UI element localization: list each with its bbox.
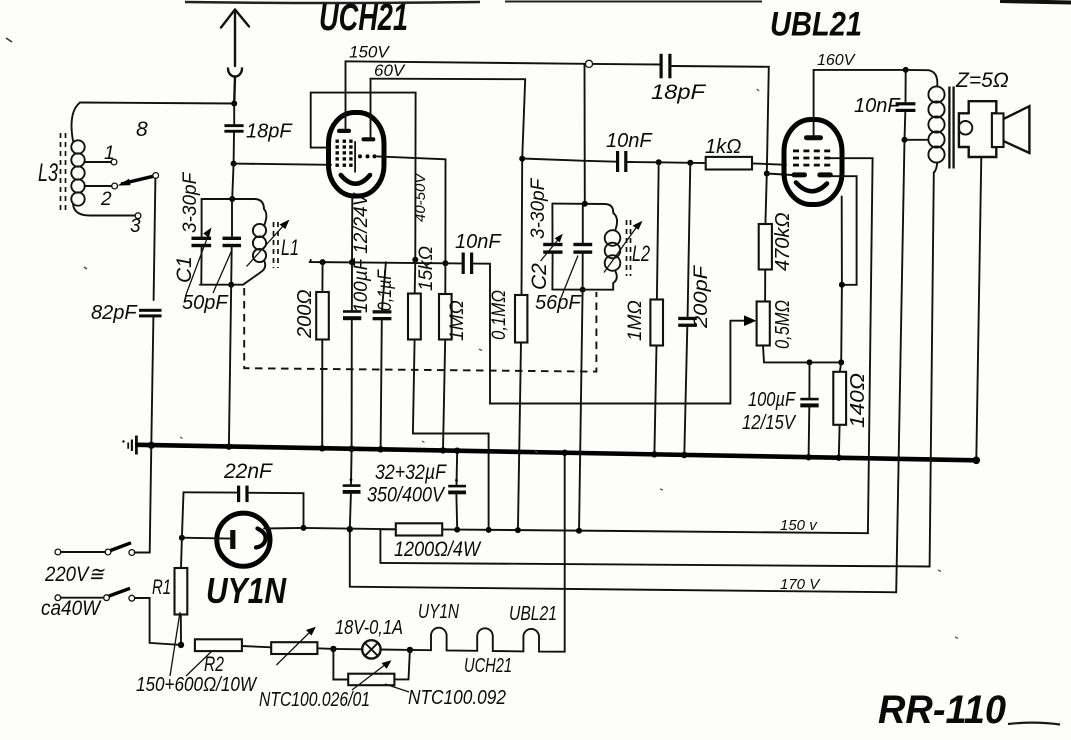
wire 82pF to bus (151, 317, 153, 445)
svg-text:150V: 150V (349, 43, 390, 62)
node grid junction (231, 161, 237, 167)
wire tank C1 bottom (200, 284, 243, 286)
svg-text:150+600Ω/10W: 150+600Ω/10W (136, 674, 258, 696)
wire UY1N cathode lead (182, 537, 230, 540)
L3 tap 3 terminal (135, 213, 141, 219)
svg-text:40-50V: 40-50V (412, 172, 429, 222)
UBL21 grid dashes (793, 150, 830, 167)
speaker horn (1004, 106, 1030, 153)
thermistor NTC 100.092 parallel (333, 649, 410, 690)
L3 tap 1 terminal (111, 159, 117, 165)
resistor 0.1M (515, 295, 527, 532)
svg-text:140Ω: 140Ω (847, 373, 869, 428)
svg-text:2: 2 (100, 189, 112, 210)
potentiometer 0.5M (757, 302, 842, 363)
wire 60V supply (371, 79, 526, 159)
wire hexode anode out (377, 156, 446, 263)
svg-text:UY1N: UY1N (418, 601, 459, 623)
svg-text:RR-110: RR-110 (878, 688, 1006, 732)
svg-text:32+32µF: 32+32µF (375, 461, 447, 484)
resistor R1 (175, 538, 188, 645)
svg-text:1MΩ: 1MΩ (447, 300, 468, 341)
node 200ohm top (320, 259, 326, 265)
resistor 140ohm (833, 362, 846, 457)
capacitor 10nF osc (616, 151, 659, 172)
wire primary bottom to raw rail (930, 173, 934, 567)
dashed coupling box C1-C2 (244, 288, 596, 372)
wire speaker to bus (976, 157, 981, 460)
svg-text:0,1MΩ: 0,1MΩ (489, 290, 510, 340)
node rail 0.1M feed (515, 527, 521, 533)
UCH21 grid dots (336, 140, 353, 167)
node rail 15k feed (486, 527, 492, 533)
svg-text:0,5MΩ: 0,5MΩ (772, 300, 794, 349)
node anode junction (442, 260, 448, 266)
resistor 1k (690, 157, 786, 170)
svg-text:10nF: 10nF (606, 130, 653, 152)
node UY1N cathode junction (179, 535, 185, 541)
wire diode plate stub (767, 174, 792, 176)
mains switch lower pole (55, 588, 181, 645)
svg-text:160V: 160V (817, 52, 856, 69)
L3 core dashes (61, 133, 66, 213)
capacitor 32uF left (343, 449, 361, 529)
L1 arrow (247, 220, 290, 267)
svg-text:R1: R1 (152, 576, 171, 599)
svg-text:UCH21: UCH21 (464, 655, 512, 677)
wire tank C2 bottom (552, 289, 613, 291)
capacitor C1 trimmer 3-30pF (186, 199, 212, 296)
node bus right end (973, 457, 981, 465)
node 200ohm bus (319, 445, 325, 451)
svg-text:150 v: 150 v (780, 517, 818, 534)
svg-text:15kΩ: 15kΩ (416, 246, 437, 291)
node antenna junction (231, 101, 237, 107)
svg-text:18pF: 18pF (246, 121, 293, 143)
wire hexode grid3 bracket (311, 93, 416, 260)
resistor 1M left (439, 263, 452, 450)
node diode feedback junction (764, 171, 770, 177)
coil L2 (605, 213, 621, 290)
resistor 15k (408, 260, 489, 532)
wire tap to primary (905, 139, 929, 141)
coil L1 (243, 209, 266, 285)
wire grid line to 200pF node (659, 161, 691, 164)
UCH21 cathode arc (341, 175, 370, 184)
svg-text:12/15V: 12/15V (742, 412, 796, 434)
L3 tap 1 wire (85, 161, 112, 163)
wire osc anode drop (584, 64, 586, 204)
L3 tap 2 wire (85, 185, 112, 187)
scan artifact RR-110 tail (1008, 723, 1060, 725)
node lamp right junction (407, 647, 413, 653)
transformer core (949, 87, 953, 169)
wire switch down to 82pF (154, 178, 156, 300)
node 1M left bus (440, 447, 446, 453)
resistor 200ohm (316, 262, 329, 448)
svg-text:56pF: 56pF (535, 292, 582, 314)
svg-text:8: 8 (136, 118, 148, 141)
UCH21 pin bar 2 (362, 137, 376, 141)
node cathode junction (349, 259, 355, 265)
node 140ohm bus (836, 455, 842, 461)
switch arm band selector (118, 173, 159, 186)
wire UBL21 cathode down (840, 197, 843, 363)
node rail tank feed (576, 528, 582, 534)
node tank C1 bottom junction (228, 282, 234, 288)
node 1M right bus (651, 451, 657, 457)
node 100uF 12/15V top (807, 359, 813, 365)
wire raw HT rail (380, 563, 929, 567)
resistor 1200ohm 4W (380, 523, 442, 563)
wire 18pF to grid junction (233, 133, 235, 164)
tank C2 top wire (552, 204, 613, 213)
wire 150V rail (442, 529, 868, 533)
svg-text:82pF: 82pF (91, 302, 138, 324)
L2 arrow (604, 221, 643, 273)
pointer NTC100.092 (385, 684, 409, 692)
node 150V line artifact circle (585, 60, 592, 67)
svg-text:L1: L1 (281, 235, 299, 260)
svg-text:170 V: 170 V (780, 576, 821, 593)
node UBL21 grid leak junction (656, 159, 662, 165)
wire antenna to L3 top (80, 103, 234, 104)
wire UBL21 pentode pin right jog (833, 176, 857, 285)
svg-text:UCH21: UCH21 (319, 0, 408, 39)
UCH21 pin bar 1 (337, 129, 351, 133)
wire grid junction to UCH21 grid (234, 164, 331, 165)
capacitor 200pF (678, 163, 697, 455)
resistor 1M right (650, 162, 663, 454)
node filament bus junction (562, 450, 568, 456)
wire antenna junction to 18pF (233, 104, 235, 125)
svg-text:200Ω: 200Ω (294, 289, 316, 339)
UCH21 inner cathode lead (354, 141, 356, 172)
UY1N cathode bar (230, 530, 235, 549)
coil L3 (71, 103, 135, 216)
node tank C2 bottom junction (580, 287, 586, 293)
svg-text:1MΩ: 1MΩ (625, 300, 646, 341)
L2 core dashes (627, 220, 631, 276)
svg-text:50pF: 50pF (182, 292, 229, 314)
thermistor NTC 100.026/01 (271, 627, 333, 665)
pointer to R2 (186, 651, 212, 676)
wire bus down to mains switch top pole (150, 445, 152, 552)
node 200pF top (687, 160, 693, 166)
wire tank C2 bottom to 150V rail (579, 290, 583, 533)
scan artifact top edge middle (505, 1, 762, 3)
node 160V transformer junction (903, 67, 909, 73)
wire ground bus (138, 445, 977, 461)
svg-text:1kΩ: 1kΩ (705, 136, 741, 158)
wire rectifier output (304, 528, 396, 529)
svg-text:UBL21: UBL21 (509, 603, 557, 625)
svg-text:L3: L3 (38, 159, 58, 187)
capacitor 82pF (139, 309, 162, 318)
UBL21 pin bar left (792, 172, 808, 177)
svg-text:10nF: 10nF (854, 95, 901, 117)
lamp 18V 0.1A (333, 640, 410, 658)
capacitor 22nF (184, 486, 304, 528)
capacitor 18pF feedback (660, 54, 769, 174)
ground (122, 436, 136, 455)
wire cathode rail (310, 260, 446, 264)
resistor 470k (759, 174, 772, 302)
node bus switch junction (148, 442, 155, 449)
wire tank bottom to bus ground (229, 285, 231, 447)
tube UBL21 envelope (784, 120, 842, 205)
svg-text:60V: 60V (374, 61, 406, 80)
L1 core dashes (274, 222, 279, 268)
node 100uF bus (348, 446, 354, 452)
node tank C2 top junction (582, 201, 588, 207)
pointer to R1 (170, 612, 180, 676)
svg-text:18V-0,1A: 18V-0,1A (335, 617, 403, 639)
pointer 50pF (213, 251, 232, 293)
capacitor 100uF 12/15V (800, 362, 818, 457)
svg-text:1200Ω/4W: 1200Ω/4W (394, 538, 482, 561)
node screen junction (412, 257, 418, 263)
mains switch upper pole (55, 543, 150, 556)
speaker voice coil (992, 113, 1004, 147)
svg-text:C2: C2 (528, 263, 551, 290)
UCH21 triode anode dots (358, 154, 377, 158)
node R1 bottom (178, 642, 184, 648)
filament chain (410, 453, 565, 652)
svg-text:NTC100.092: NTC100.092 (408, 687, 506, 709)
capacitor 56pF (573, 204, 592, 290)
node rail 32uF right (454, 527, 460, 533)
wire 170V rail (350, 529, 896, 592)
capacitor 32uF right (448, 451, 466, 530)
svg-text:0,1µF: 0,1µF (375, 269, 396, 311)
resistor R2 (195, 639, 271, 651)
capacitor 10nF coupling mid (445, 253, 730, 404)
node lamp left junction (330, 646, 336, 652)
node 22nF anode junction (301, 525, 307, 531)
speaker frame (959, 101, 996, 157)
wire tap down to 170V rail (896, 140, 904, 593)
transformer primary coil (906, 70, 945, 173)
svg-text:1: 1 (104, 143, 115, 164)
svg-text:NTC100.026/01: NTC100.026/01 (259, 689, 370, 711)
svg-text:200pF: 200pF (691, 264, 712, 329)
capacitor C2 trimmer 3-30pF (541, 204, 563, 290)
svg-text:Z=5Ω: Z=5Ω (955, 69, 1009, 92)
svg-text:UBL21: UBL21 (770, 6, 862, 44)
node 140ohm top (838, 359, 844, 365)
wire UY1N anode out (264, 527, 304, 530)
wire 22nF left drop (182, 492, 184, 537)
node bus tank ground junction (226, 443, 232, 449)
capacitor 18pF antenna (224, 124, 243, 133)
svg-text:350/400V: 350/400V (367, 484, 446, 507)
transformer secondary loop (959, 121, 973, 135)
tank C1 box top wire (202, 199, 264, 209)
wire 150V supply (346, 61, 661, 128)
tube UCH21 envelope (329, 113, 385, 197)
scan artifact left margin marks (6, 38, 958, 639)
node triode anode junction (519, 156, 525, 162)
wire UBL21 screen to 150V rail (830, 158, 873, 533)
pointer 56pF (561, 256, 579, 300)
node 0.1uF bus (377, 446, 383, 452)
wire 160V anode (814, 70, 906, 135)
svg-text:100µF 12/24V: 100µF 12/24V (351, 191, 372, 313)
node rectifier output junction (347, 526, 353, 532)
svg-text:3-30pF: 3-30pF (528, 177, 549, 239)
wire cathode down (351, 196, 353, 262)
svg-text:220V≅: 220V≅ (44, 563, 105, 586)
svg-text:ca40W: ca40W (41, 597, 102, 620)
svg-text:470kΩ: 470kΩ (772, 212, 794, 271)
node cathode jog junction (839, 282, 845, 288)
scan artifact top edge left (185, 2, 480, 3)
UBL21 cathode arc (796, 183, 827, 192)
wire grid junction down to tank top (232, 164, 233, 199)
svg-text:3: 3 (130, 216, 141, 237)
tube UY1N envelope (217, 513, 270, 566)
capacitor 50pF (223, 199, 242, 285)
capacitor 10nF tone (896, 70, 916, 140)
capacitor 100uF 12/24V (343, 262, 361, 449)
UY1N anode arc (256, 529, 266, 548)
svg-text:10nF: 10nF (455, 231, 502, 253)
UBL21 anode bar (804, 135, 823, 140)
UBL21 pin bar right (817, 172, 833, 177)
svg-text:3-30pF: 3-30pF (180, 171, 201, 233)
wire triode anode horizontal (522, 159, 586, 296)
node transformer tap junction (902, 137, 908, 143)
wire grid line right of junction (585, 160, 617, 163)
scan artifact top right corner (1000, 1, 1071, 3)
svg-text:C1: C1 (173, 256, 196, 283)
node 32uF right bus (454, 448, 460, 454)
node 200pF bus (681, 452, 687, 458)
node 100uF 12/15V bus (805, 454, 811, 460)
svg-text:100µF: 100µF (748, 389, 796, 411)
L3 tap 2 terminal (112, 183, 118, 189)
antenna (221, 10, 249, 104)
svg-text:L2: L2 (632, 241, 650, 266)
node tank C1 top junction (229, 196, 235, 202)
svg-text:18pF: 18pF (651, 81, 706, 104)
svg-text:UY1N: UY1N (206, 570, 287, 611)
potentiometer wiper arrow (730, 315, 756, 326)
capacitor 0.1uF (373, 262, 392, 449)
svg-text:22nF: 22nF (223, 460, 273, 483)
